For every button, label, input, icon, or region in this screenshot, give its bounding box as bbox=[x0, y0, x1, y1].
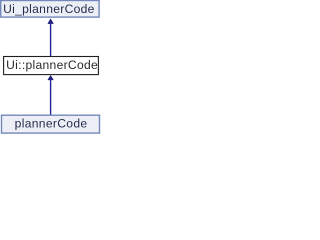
inheritance arrow from Ui::plannerCode to Ui_plannerCode bbox=[48, 19, 54, 56]
class node Ui_plannerCode bbox=[1, 1, 99, 18]
class node Ui::plannerCode bbox=[4, 57, 99, 75]
background bbox=[0, 0, 103, 136]
svg-text:Ui_plannerCode: Ui_plannerCode bbox=[3, 2, 95, 16]
class node plannerCode bbox=[2, 115, 100, 133]
inheritance arrow from plannerCode to Ui::plannerCode bbox=[48, 75, 54, 115]
svg-text:plannerCode: plannerCode bbox=[15, 116, 88, 130]
svg-text:Ui::plannerCode: Ui::plannerCode bbox=[6, 58, 98, 72]
